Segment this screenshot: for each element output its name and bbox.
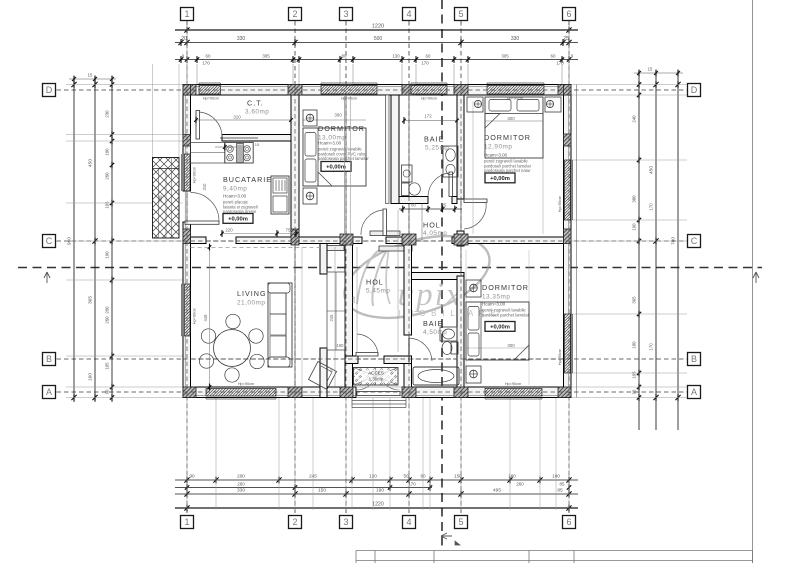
svg-text:BAIE: BAIE xyxy=(424,135,444,144)
svg-text:85: 85 xyxy=(560,482,565,487)
svg-text:200: 200 xyxy=(237,474,245,479)
svg-text:60: 60 xyxy=(426,54,431,59)
svg-text:A: A xyxy=(46,387,52,397)
svg-text:4,05mp: 4,05mp xyxy=(423,230,447,237)
svg-text:448: 448 xyxy=(203,314,208,322)
svg-text:180: 180 xyxy=(632,341,637,349)
svg-text:305: 305 xyxy=(501,54,509,59)
svg-text:Hcam=3.00: Hcam=3.00 xyxy=(318,141,342,146)
svg-text:Hp=90cm: Hp=90cm xyxy=(558,196,562,212)
svg-text:260: 260 xyxy=(237,482,245,487)
svg-text:+0,00m: +0,00m xyxy=(490,325,510,331)
svg-text:1220: 1220 xyxy=(372,502,384,508)
svg-text:160: 160 xyxy=(337,343,345,348)
svg-text:3,60mp: 3,60mp xyxy=(245,109,269,116)
svg-text:5,25mp: 5,25mp xyxy=(425,145,449,152)
svg-text:Hp=90cm: Hp=90cm xyxy=(203,97,219,101)
svg-text:DORMITOR: DORMITOR xyxy=(318,124,365,133)
svg-text:3: 3 xyxy=(343,517,348,527)
svg-text:Hp=90cm: Hp=90cm xyxy=(421,97,437,101)
svg-text:85: 85 xyxy=(557,488,563,494)
svg-text:Hp=90cm: Hp=90cm xyxy=(505,382,521,386)
svg-text:9,40mp: 9,40mp xyxy=(223,186,247,193)
svg-text:Hp=90cm: Hp=90cm xyxy=(238,382,254,386)
svg-text:A: A xyxy=(691,387,697,397)
svg-text:170: 170 xyxy=(202,61,210,66)
svg-text:C: C xyxy=(691,236,698,246)
svg-text:105: 105 xyxy=(105,201,110,209)
svg-text:C: C xyxy=(46,236,53,246)
svg-text:5: 5 xyxy=(458,517,463,527)
svg-text:2: 2 xyxy=(292,517,297,527)
svg-text:90: 90 xyxy=(105,389,110,394)
svg-text:365: 365 xyxy=(632,296,637,304)
svg-text:365: 365 xyxy=(88,296,94,304)
svg-text:170: 170 xyxy=(556,61,564,66)
svg-text:15: 15 xyxy=(255,142,260,147)
svg-text:4,50mp: 4,50mp xyxy=(423,329,447,336)
svg-text:Hcam=3.00: Hcam=3.00 xyxy=(484,153,508,158)
svg-text:2: 2 xyxy=(292,9,297,19)
svg-text:105: 105 xyxy=(632,371,637,379)
svg-text:Hp=90cm: Hp=90cm xyxy=(193,308,197,324)
svg-text:HOL: HOL xyxy=(423,221,441,230)
svg-text:5: 5 xyxy=(458,9,463,19)
svg-text:180: 180 xyxy=(508,474,516,479)
svg-text:25: 25 xyxy=(563,36,569,42)
svg-text:BUCATARIE: BUCATARIE xyxy=(223,175,272,184)
svg-text:300: 300 xyxy=(334,113,342,118)
svg-text:75: 75 xyxy=(286,228,291,233)
svg-text:92: 92 xyxy=(329,367,334,372)
svg-text:5,45mp: 5,45mp xyxy=(366,288,390,295)
svg-text:170: 170 xyxy=(421,61,429,66)
svg-text:495: 495 xyxy=(493,488,501,494)
svg-text:4: 4 xyxy=(406,9,411,19)
svg-text:Hp=90cm: Hp=90cm xyxy=(341,97,357,101)
svg-text:245: 245 xyxy=(329,314,334,322)
svg-text:240: 240 xyxy=(158,195,163,203)
svg-text:pardoseala parchet lamelar: pardoseala parchet lamelar xyxy=(318,156,369,161)
svg-text:6: 6 xyxy=(566,9,571,19)
svg-text:230: 230 xyxy=(105,110,110,118)
svg-text:310: 310 xyxy=(202,183,207,191)
svg-text:380: 380 xyxy=(632,195,637,203)
svg-text:500: 500 xyxy=(374,36,383,42)
svg-text:Hcam=3.00: Hcam=3.00 xyxy=(223,194,247,199)
svg-text:190: 190 xyxy=(376,488,384,494)
svg-text:260: 260 xyxy=(516,482,524,487)
svg-text:1: 1 xyxy=(184,517,189,527)
svg-text:D: D xyxy=(691,85,698,95)
svg-text:1: 1 xyxy=(184,9,189,19)
svg-text:ACCES: ACCES xyxy=(368,371,384,376)
svg-text:21,00mp: 21,00mp xyxy=(237,300,265,307)
svg-text:190: 190 xyxy=(105,251,110,259)
svg-text:HOL: HOL xyxy=(366,278,384,287)
svg-text:+0,00m: +0,00m xyxy=(490,176,510,182)
svg-text:170: 170 xyxy=(649,203,654,211)
svg-text:3: 3 xyxy=(343,9,348,19)
svg-text:60: 60 xyxy=(206,54,211,59)
svg-text:200: 200 xyxy=(105,306,110,314)
svg-text:305: 305 xyxy=(262,54,270,59)
svg-text:190: 190 xyxy=(632,223,637,231)
svg-text:1,30mp: 1,30mp xyxy=(369,377,384,382)
svg-text:520: 520 xyxy=(351,296,356,303)
svg-text:160: 160 xyxy=(88,373,94,381)
svg-text:C.T.: C.T. xyxy=(247,99,264,108)
svg-text:260: 260 xyxy=(105,316,110,324)
svg-text:DORMITOR: DORMITOR xyxy=(484,133,531,142)
svg-text:172: 172 xyxy=(424,114,432,119)
svg-text:Hp=90cm: Hp=90cm xyxy=(558,349,562,365)
svg-text:450: 450 xyxy=(649,166,655,174)
svg-text:150: 150 xyxy=(318,488,326,494)
svg-text:450: 450 xyxy=(88,159,94,167)
svg-text:60: 60 xyxy=(551,54,556,59)
svg-text:20: 20 xyxy=(181,36,187,42)
svg-text:DORMITOR: DORMITOR xyxy=(482,283,529,292)
svg-text:300: 300 xyxy=(507,343,515,348)
svg-text:pardoseli parchet lamelar: pardoseli parchet lamelar xyxy=(482,312,530,317)
svg-text:LIVING: LIVING xyxy=(237,289,267,298)
svg-text:B: B xyxy=(691,354,697,364)
svg-text:130: 130 xyxy=(392,54,400,59)
svg-text:12,90mp: 12,90mp xyxy=(484,144,512,151)
svg-text:170: 170 xyxy=(649,343,654,351)
svg-text:90: 90 xyxy=(189,474,195,479)
svg-text:B: B xyxy=(46,354,52,364)
svg-text:+0,00m: +0,00m xyxy=(228,217,248,223)
svg-text:105: 105 xyxy=(105,362,110,370)
svg-text:+0,00m: +0,00m xyxy=(326,165,346,171)
svg-text:310: 310 xyxy=(233,115,241,120)
svg-text:6: 6 xyxy=(566,517,571,527)
svg-text:Hp=90cm: Hp=90cm xyxy=(193,167,197,183)
svg-text:15: 15 xyxy=(88,73,93,78)
svg-text:300: 300 xyxy=(507,116,515,121)
svg-text:170: 170 xyxy=(408,482,416,487)
svg-text:220: 220 xyxy=(225,228,233,233)
svg-text:240: 240 xyxy=(632,115,637,123)
svg-text:13,35mp: 13,35mp xyxy=(482,294,510,301)
svg-text:80: 80 xyxy=(342,54,347,59)
svg-text:D: D xyxy=(46,85,53,95)
svg-text:4: 4 xyxy=(406,517,411,527)
svg-text:15: 15 xyxy=(648,67,653,72)
svg-text:90: 90 xyxy=(632,389,637,394)
svg-text:330: 330 xyxy=(511,36,520,42)
svg-text:100: 100 xyxy=(105,148,110,156)
svg-text:260: 260 xyxy=(105,172,110,180)
svg-text:50: 50 xyxy=(403,474,409,479)
svg-text:1220: 1220 xyxy=(372,24,384,30)
svg-text:80: 80 xyxy=(411,203,416,208)
svg-text:330: 330 xyxy=(237,488,245,494)
svg-text:330: 330 xyxy=(237,36,246,42)
